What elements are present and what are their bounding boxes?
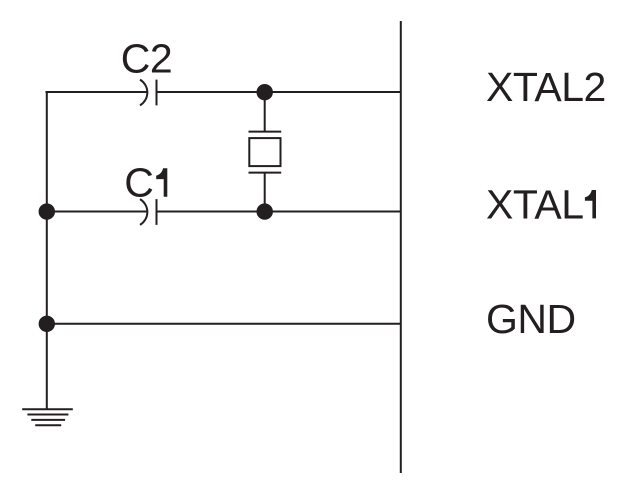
wire: left vertical bus from XTAL2 wire down to ground	[46, 91, 48, 409]
node: junction dot left bus / XTAL1 wire	[39, 203, 55, 219]
svg-text:C2: C2	[121, 36, 172, 82]
capacitor C1 straight plate	[156, 199, 158, 225]
wire: XTAL2 top wire, right segment from C2 to device pin	[157, 91, 401, 93]
crystal Y1 top plate	[249, 131, 282, 133]
capacitor C1 curved plate	[140, 199, 147, 225]
wire: crystal top stub from XTAL2 node	[264, 92, 266, 132]
node: junction dot left bus / GND wire	[39, 316, 55, 332]
capacitor C2 straight plate	[156, 80, 158, 106]
node: junction dot XTAL1 wire / crystal bottom	[257, 203, 273, 219]
wire: crystal bottom stub to XTAL1 node	[264, 173, 266, 212]
ground symbol	[22, 408, 73, 410]
wire: XTAL1 middle wire, left segment to C1	[46, 211, 148, 213]
svg-text:C: C	[124, 160, 154, 206]
device edge: right vertical line of microcontroller	[400, 21, 402, 473]
crystal Y1 bottom plate	[249, 172, 282, 174]
wire: XTAL1 middle wire, right segment from C1 to device pin	[157, 211, 401, 213]
crystal Y1 body (square)	[249, 138, 280, 166]
wire: XTAL2 top wire, left segment to C2	[46, 91, 148, 93]
node: junction dot XTAL2 wire / crystal top	[257, 84, 273, 100]
svg-text:XTAL: XTAL	[486, 181, 584, 227]
svg-text:GND: GND	[486, 296, 576, 342]
svg-text:XTAL2: XTAL2	[486, 64, 606, 110]
wire: GND wire to device pin	[46, 323, 401, 325]
capacitor C2 curved plate	[140, 80, 147, 106]
